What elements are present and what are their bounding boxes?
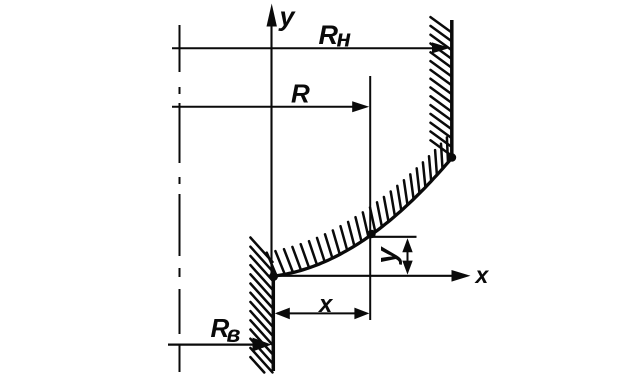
svg-text:R: R xyxy=(291,79,310,109)
y dimension tick line xyxy=(372,236,417,238)
svg-text:y: y xyxy=(278,2,297,32)
vertex dot (origin) xyxy=(269,272,278,281)
label y (dimension, rotated) xyxy=(371,246,403,266)
y-axis xyxy=(270,22,272,277)
svg-text:y: y xyxy=(371,246,403,266)
svg-text:R: R xyxy=(319,20,339,50)
dimension Rн line xyxy=(172,47,435,49)
x-axis xyxy=(274,275,456,277)
wall junction dot xyxy=(448,153,456,161)
svg-text:в: в xyxy=(227,321,241,347)
dimension y (double arrow) xyxy=(407,242,409,271)
svg-text:x: x xyxy=(317,291,334,318)
svg-text:x: x xyxy=(474,262,490,288)
lower-left wall xyxy=(272,276,276,371)
right wall xyxy=(450,20,454,158)
dimension x (double arrow) xyxy=(277,312,366,314)
centerline (dash-dot axis of rotation) xyxy=(179,25,181,372)
vertical reference line at R xyxy=(369,76,371,320)
curve point dot xyxy=(367,230,375,238)
dimension R line xyxy=(172,106,355,108)
curve (free-surface profile) xyxy=(274,158,453,276)
hatching (section lines) xyxy=(250,17,451,372)
svg-text:н: н xyxy=(337,26,352,53)
dimension Rв line xyxy=(168,343,256,345)
